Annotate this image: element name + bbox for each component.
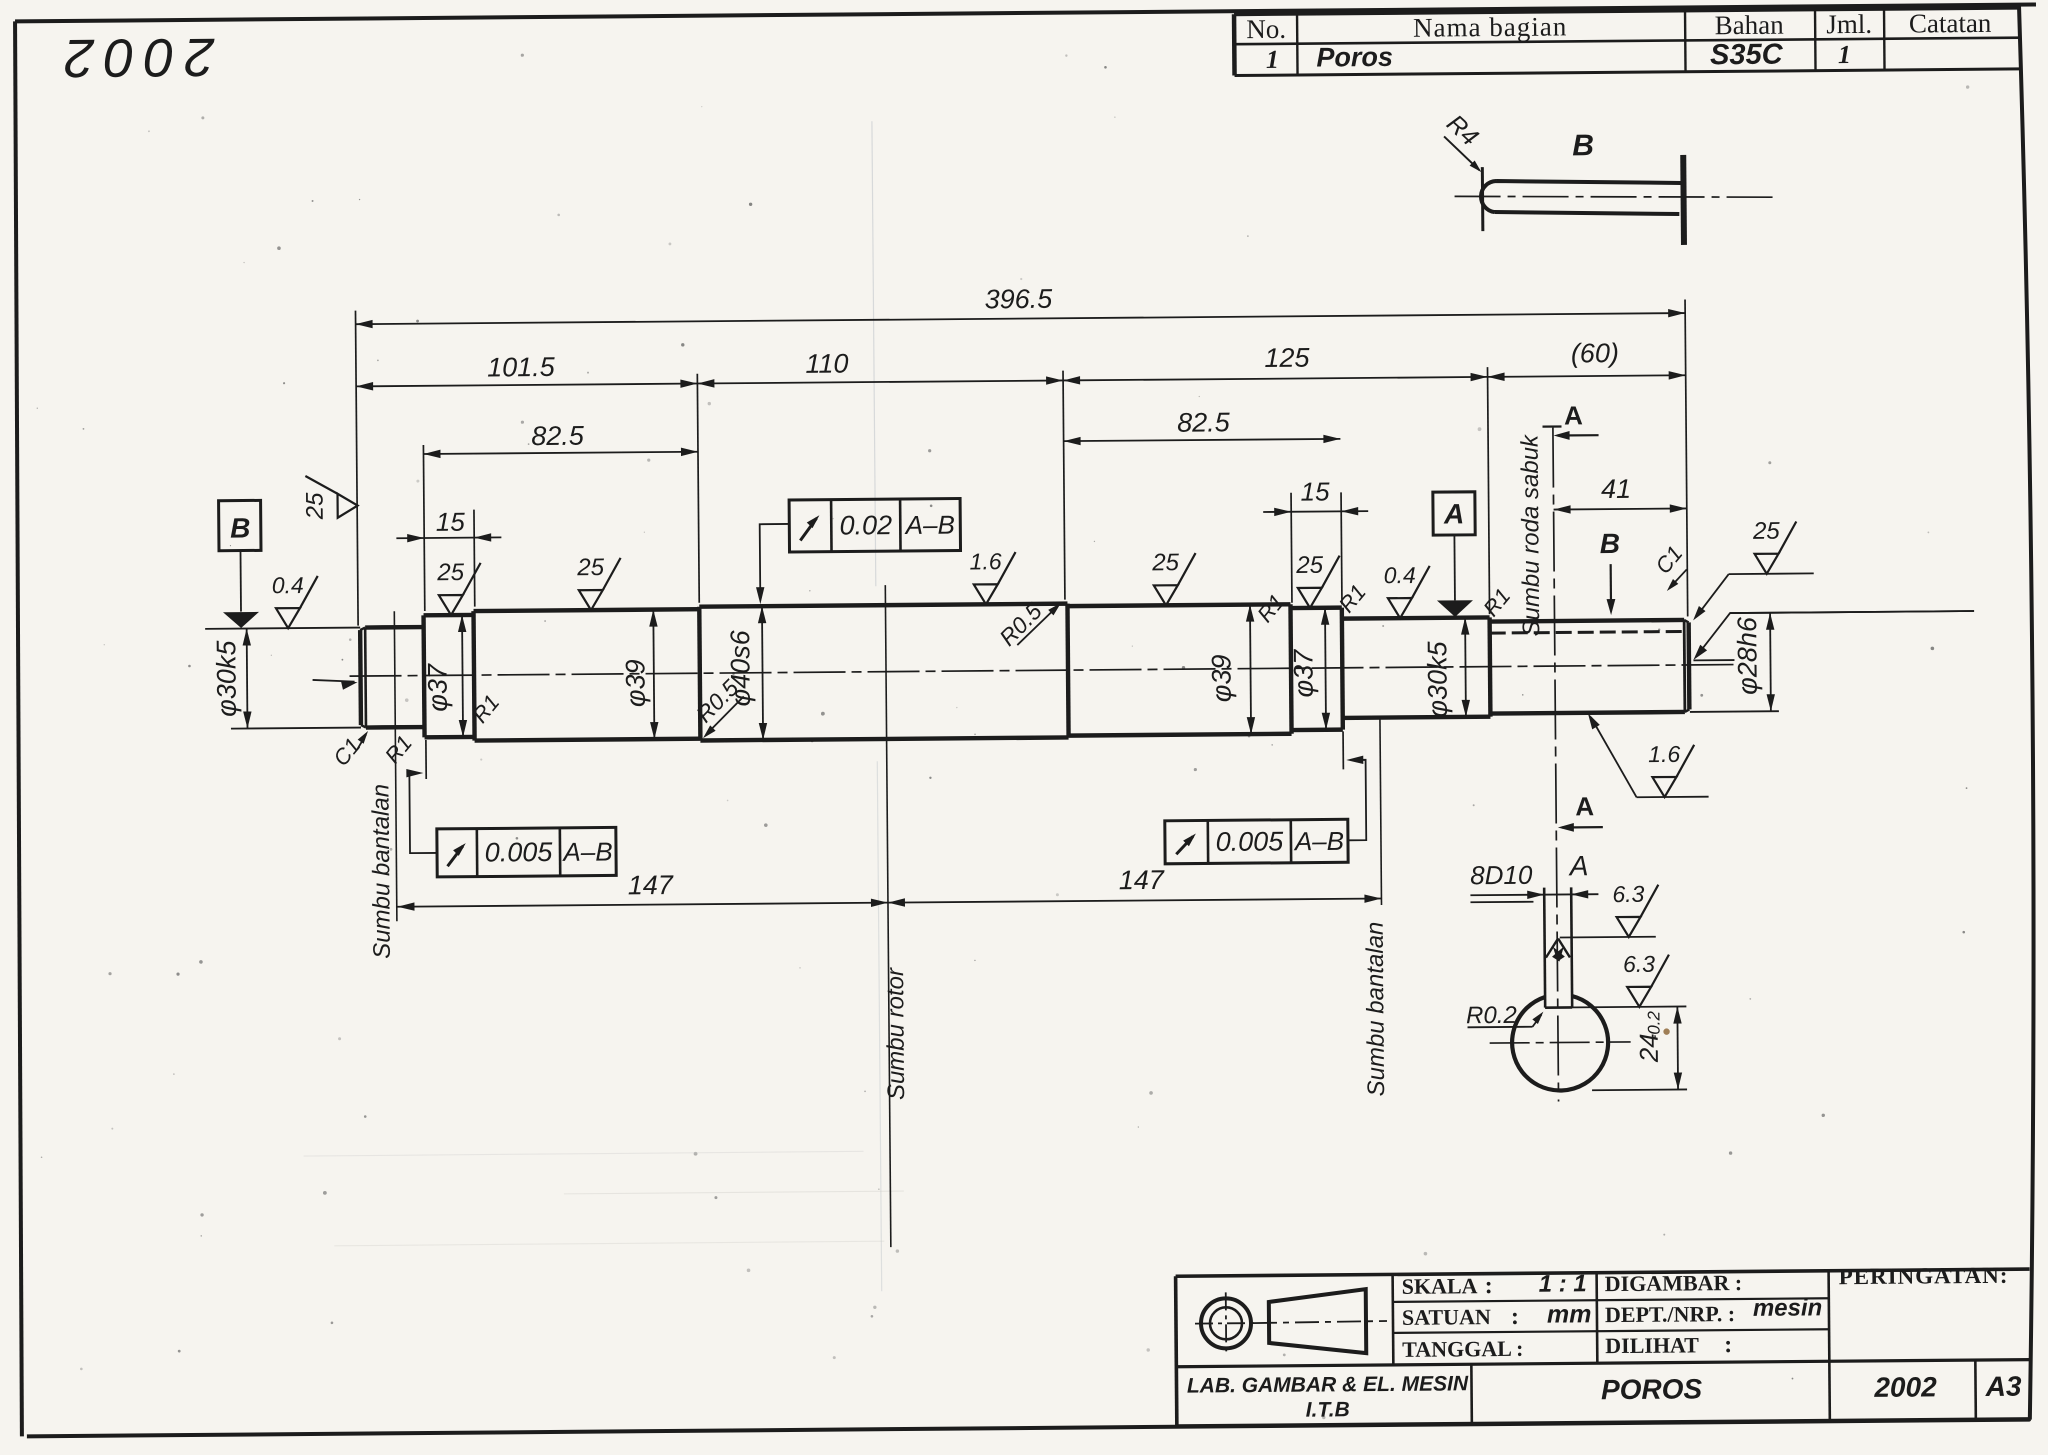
svg-text:φ39: φ39 — [1206, 654, 1236, 702]
surface 1.6 phi40 — [970, 548, 1016, 604]
extension lines above shaft — [355, 299, 1687, 627]
svg-text:φ28h6: φ28h6 — [1732, 616, 1763, 695]
dim 125 — [1063, 377, 1487, 381]
svg-text:SATUAN: SATUAN — [1402, 1304, 1491, 1330]
surface 25 phi37 left — [436, 559, 481, 615]
section centerlines — [1490, 1042, 1631, 1043]
svg-text:0.02: 0.02 — [839, 510, 892, 540]
surface 25 on left end extension (rotated) — [301, 476, 357, 521]
svg-text:1: 1 — [1266, 45, 1279, 74]
dim 15 right — [1263, 476, 1368, 516]
dim phi37 right — [1325, 608, 1326, 730]
dim phi39 left — [653, 610, 654, 739]
section arrow A bottom — [1558, 791, 1603, 832]
sumbu bantalan left line — [394, 611, 397, 921]
svg-text::: : — [1511, 1304, 1519, 1330]
svg-text:Catatan: Catatan — [1909, 8, 1992, 39]
svg-text:mm: mm — [1547, 1300, 1592, 1328]
dim 82.5 right — [1064, 439, 1341, 441]
svg-text:Sumbu rotor: Sumbu rotor — [882, 967, 910, 1100]
svg-text:125: 125 — [1264, 343, 1310, 373]
sumbu rotor line — [885, 585, 891, 1247]
svg-text:6.3: 6.3 — [1623, 951, 1655, 977]
svg-text:0.4: 0.4 — [272, 572, 304, 598]
surface 0.4 right — [1384, 562, 1430, 618]
dim phi28h6 — [1769, 613, 1772, 711]
svg-text:R0.2: R0.2 — [1466, 1002, 1517, 1029]
keyway slot of section — [1544, 887, 1572, 1007]
svg-text:B: B — [1600, 528, 1620, 559]
dim 8D10 — [1470, 859, 1598, 902]
frame 0.005 A-B left — [406, 767, 616, 877]
svg-text::: : — [1724, 1332, 1732, 1358]
svg-text:TANGGAL :: TANGGAL : — [1402, 1336, 1523, 1362]
svg-text:LAB. GAMBAR & EL. MESIN: LAB. GAMBAR & EL. MESIN — [1187, 1372, 1469, 1397]
svg-text:A–B: A–B — [904, 510, 955, 540]
svg-text:15: 15 — [1300, 476, 1330, 506]
svg-text:No.: No. — [1246, 14, 1286, 44]
svg-text:6.3: 6.3 — [1612, 881, 1644, 907]
svg-text:0.005: 0.005 — [485, 837, 554, 868]
surface 25 phi39 right — [1151, 549, 1196, 605]
svg-text::: : — [1485, 1273, 1493, 1299]
svg-text:2002: 2002 — [1873, 1371, 1937, 1403]
svg-text:82.5: 82.5 — [1177, 407, 1231, 437]
svg-text:A–B: A–B — [561, 836, 612, 866]
leader to left end face — [313, 680, 358, 690]
parts table — [1234, 8, 2019, 76]
dim 82.5 left — [423, 452, 697, 454]
svg-text:82.5: 82.5 — [531, 421, 585, 451]
svg-text:Sumbu roda sabuk: Sumbu roda sabuk — [1517, 433, 1546, 637]
svg-text:0.4: 0.4 — [1384, 562, 1416, 588]
title block frame — [1176, 1269, 2031, 1426]
svg-text:φ30k5: φ30k5 — [211, 639, 242, 716]
dim phi30k5 left — [246, 629, 249, 729]
surface 6.3 upper with leader — [1545, 881, 1659, 962]
sumbu roda sabuk section line A-A — [1542, 426, 1567, 1101]
surface 25 right end — [1752, 518, 1797, 574]
dim 24-0.2 — [1591, 1006, 1687, 1090]
svg-text:1: 1 — [1838, 40, 1851, 69]
svg-text:mesin: mesin — [1753, 1294, 1823, 1322]
dim 396.5 — [356, 313, 1686, 324]
dim 41 — [1554, 508, 1687, 509]
section A-A circle — [1512, 996, 1609, 1091]
svg-text:25: 25 — [576, 554, 605, 581]
view B direction arrow — [1600, 528, 1621, 615]
svg-text:1.6: 1.6 — [1648, 741, 1680, 767]
svg-text:B: B — [230, 512, 250, 543]
svg-text:(60): (60) — [1571, 338, 1619, 368]
label R0.5 right — [994, 598, 1061, 651]
label R0.5 left — [691, 674, 745, 738]
svg-text:2002: 2002 — [54, 27, 216, 88]
extension lines below shaft — [426, 731, 1344, 779]
svg-text:110: 110 — [805, 348, 848, 378]
sumbu bantalan right line — [1380, 718, 1382, 905]
svg-text:396.5: 396.5 — [984, 284, 1053, 315]
dim (60) — [1488, 375, 1686, 377]
datum A box — [1433, 492, 1476, 617]
svg-text:25: 25 — [302, 492, 329, 521]
datum B box — [219, 500, 262, 628]
dim 110 — [697, 380, 1063, 383]
svg-text:15: 15 — [436, 507, 466, 537]
svg-text:Jml.: Jml. — [1826, 9, 1872, 39]
R4 label — [1441, 109, 1484, 172]
keyway hidden line — [1490, 631, 1687, 633]
surface 0.4 left — [272, 572, 318, 628]
leader to right end face — [1693, 611, 1974, 660]
svg-text:A: A — [1443, 498, 1464, 529]
right end extended lines — [1689, 611, 1975, 712]
svg-text:DILIHAT: DILIHAT — [1605, 1332, 1699, 1358]
svg-text:A–B: A–B — [1293, 826, 1344, 856]
label C1 left — [328, 731, 368, 771]
svg-text:I.T.B: I.T.B — [1306, 1398, 1350, 1421]
svg-text:-0.2: -0.2 — [1644, 1010, 1663, 1040]
svg-text:DIGAMBAR :: DIGAMBAR : — [1605, 1270, 1743, 1296]
svg-text:0.005: 0.005 — [1216, 826, 1285, 857]
svg-text:41: 41 — [1601, 474, 1631, 504]
shaft outline — [360, 598, 1690, 743]
surface 25 phi37 right — [1295, 552, 1340, 608]
section arrow A top — [1553, 400, 1598, 440]
svg-text:DEPT./NRP. :: DEPT./NRP. : — [1605, 1301, 1735, 1327]
dim phi40s6 — [762, 606, 763, 740]
detail view B slot — [1454, 154, 1775, 247]
svg-text:A3: A3 — [1985, 1371, 2022, 1402]
dim 147 right — [888, 899, 1381, 903]
svg-text:147: 147 — [628, 870, 674, 900]
svg-text:8D10: 8D10 — [1470, 860, 1533, 891]
surface 1.6 lower right with leader — [1588, 712, 1709, 797]
svg-text:B: B — [1572, 129, 1594, 162]
surface 25 phi39 left — [576, 554, 621, 610]
svg-text:φ37: φ37 — [1288, 649, 1318, 698]
svg-text:Bahan: Bahan — [1715, 10, 1785, 41]
dim phi37 left — [462, 615, 463, 737]
svg-text:Poros: Poros — [1316, 42, 1393, 73]
svg-text:Sumbu bantalan: Sumbu bantalan — [367, 784, 395, 959]
svg-text:Nama bagian: Nama bagian — [1413, 11, 1567, 42]
label C1 right — [1650, 541, 1688, 591]
svg-text:PERINGATAN:: PERINGATAN: — [1839, 1263, 2009, 1289]
svg-text:φ30k5: φ30k5 — [1422, 640, 1453, 717]
svg-text:A: A — [1568, 850, 1589, 881]
leader 25 to right top corner — [1693, 573, 1814, 620]
dim 101.5 — [356, 384, 697, 387]
svg-text:101.5: 101.5 — [487, 352, 556, 383]
svg-text:25: 25 — [1752, 518, 1781, 545]
frame 0.02 A-B — [755, 499, 961, 605]
svg-text:A: A — [1564, 400, 1583, 430]
svg-text:A: A — [1575, 791, 1594, 821]
svg-text:φ39: φ39 — [620, 659, 650, 707]
dim 15 left — [396, 506, 501, 542]
left extension of phi30 edges — [205, 628, 361, 729]
svg-text:25: 25 — [1295, 552, 1324, 579]
svg-text:25: 25 — [1151, 549, 1180, 576]
shaft centerline — [350, 665, 1735, 677]
svg-text:POROS: POROS — [1601, 1373, 1703, 1405]
svg-text:S35C: S35C — [1710, 39, 1784, 72]
svg-text:25: 25 — [436, 559, 465, 586]
surface 6.3 lower — [1545, 950, 1687, 1007]
projection symbol — [1195, 1289, 1388, 1355]
faint streaks — [295, 121, 905, 1296]
svg-text:Sumbu bantalan: Sumbu bantalan — [1362, 922, 1390, 1097]
dim phi30k5 right — [1464, 618, 1467, 717]
label R0.2 with leader — [1466, 1002, 1544, 1030]
dim phi39 right — [1250, 605, 1251, 734]
svg-text:SKALA: SKALA — [1402, 1273, 1478, 1299]
dim 147 left — [397, 903, 887, 907]
svg-text:147: 147 — [1119, 865, 1165, 895]
svg-text:1 : 1: 1 : 1 — [1539, 1270, 1587, 1297]
frame 0.005 A-B right — [1164, 756, 1366, 864]
svg-text:φ37: φ37 — [422, 663, 452, 712]
svg-text:1.6: 1.6 — [970, 548, 1002, 574]
